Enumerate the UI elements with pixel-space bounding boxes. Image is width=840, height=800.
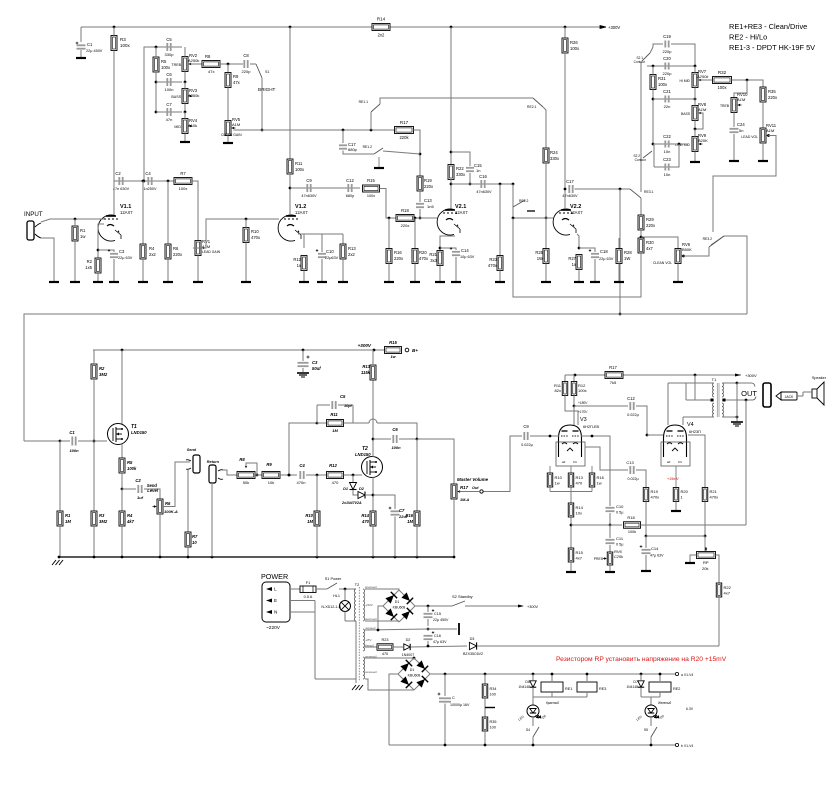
svg-text:CLEAN VOL: CLEAN VOL: [653, 261, 672, 265]
svg-text:5n: 5n: [739, 128, 743, 133]
svg-text:1n250V: 1n250V: [143, 187, 157, 191]
svg-text:Return: Return: [207, 460, 220, 464]
svg-text:100x: 100x: [161, 65, 171, 70]
svg-text:Out: Out: [472, 486, 479, 490]
svg-text:3x3: 3x3: [430, 258, 437, 263]
svg-text:47n630V: 47n630V: [301, 194, 317, 198]
svg-text:330x: 330x: [456, 172, 466, 177]
svg-text:10: 10: [192, 540, 197, 545]
svg-text:C16: C16: [479, 174, 487, 179]
svg-text:RE3.2: RE3.2: [703, 237, 713, 241]
svg-text:C1: C1: [87, 42, 93, 47]
svg-text:Красный: Красный: [546, 701, 559, 705]
svg-text:LND150: LND150: [131, 430, 147, 435]
svg-text:22μ 63V: 22μ 63V: [599, 257, 614, 261]
svg-text:1M-A: 1M-A: [460, 498, 470, 502]
svg-text:A1M: A1M: [232, 122, 240, 127]
svg-text:R17: R17: [400, 120, 409, 125]
svg-text:47n 630V: 47n 630V: [113, 187, 130, 191]
svg-text:1W: 1W: [537, 256, 543, 261]
svg-text:RE1-3 - DPDT HK-19F 5V: RE1-3 - DPDT HK-19F 5V: [729, 43, 815, 52]
svg-text:C4: C4: [145, 171, 151, 176]
svg-text:2x2: 2x2: [348, 252, 355, 257]
svg-text:R1: R1: [80, 228, 86, 233]
svg-text:C3: C3: [119, 249, 125, 254]
svg-text:0 5μ: 0 5μ: [616, 543, 623, 547]
svg-text:A1M: A1M: [697, 107, 707, 112]
svg-text:B20K: B20K: [698, 138, 708, 143]
svg-text:MID: MID: [174, 125, 181, 129]
svg-text:TREB: TREB: [720, 104, 730, 108]
svg-text:R16: R16: [597, 475, 605, 480]
svg-text:C12: C12: [627, 396, 635, 401]
svg-text:470x: 470x: [710, 495, 719, 500]
svg-text:100x: 100x: [179, 186, 188, 191]
svg-text:LND150: LND150: [355, 452, 371, 457]
svg-text:47x: 47x: [233, 80, 241, 85]
svg-text:100x: 100x: [367, 194, 375, 198]
svg-text:POWER: POWER: [261, 572, 288, 581]
svg-text:R10: R10: [305, 513, 313, 518]
svg-text:1M: 1M: [307, 519, 313, 524]
svg-text:R6: R6: [173, 246, 179, 251]
svg-text:+300V: +300V: [745, 373, 757, 378]
svg-text:R13: R13: [362, 364, 370, 369]
svg-text:~220V: ~220V: [266, 625, 281, 631]
svg-text:1M: 1M: [65, 519, 71, 524]
svg-text:1N4148: 1N4148: [626, 685, 638, 689]
svg-text:220x: 220x: [646, 223, 656, 228]
svg-text:1N4148: 1N4148: [518, 685, 530, 689]
svg-text:-28V: -28V: [365, 638, 372, 642]
svg-text:R18: R18: [401, 208, 409, 213]
svg-text:R11: R11: [330, 412, 338, 417]
svg-text:470x: 470x: [651, 495, 660, 500]
svg-text:R17: R17: [609, 365, 617, 370]
svg-text:KBU608: KBU608: [393, 606, 406, 610]
svg-text:0 b: 0 b: [678, 460, 683, 464]
svg-text:+300V: +300V: [358, 343, 372, 348]
svg-text:Speaker: Speaker: [812, 376, 827, 380]
svg-text:T1: T1: [712, 377, 717, 382]
svg-text:10n: 10n: [664, 172, 671, 177]
svg-text:Contour: Contour: [634, 60, 646, 64]
svg-text:47n630V: 47n630V: [476, 190, 492, 194]
svg-text:6Н2П-ЕВ: 6Н2П-ЕВ: [583, 425, 599, 429]
svg-text:R4: R4: [127, 513, 133, 518]
svg-text:C25k: C25k: [614, 555, 624, 559]
svg-text:R28: R28: [624, 250, 632, 255]
svg-text:R16: R16: [394, 250, 402, 255]
svg-text:C9: C9: [306, 178, 312, 183]
svg-text:100: 100: [490, 693, 496, 697]
svg-text:C7: C7: [166, 102, 172, 107]
svg-text:22n: 22n: [664, 104, 671, 109]
svg-text:C7: C7: [399, 508, 405, 513]
svg-text:R32: R32: [718, 70, 727, 75]
svg-text:CLEAN GAIN: CLEAN GAIN: [221, 133, 242, 137]
svg-text:R3: R3: [99, 513, 105, 518]
svg-text:R15: R15: [389, 340, 397, 345]
svg-text:A250k: A250k: [188, 93, 199, 98]
svg-text:R23: R23: [382, 638, 389, 642]
svg-text:330x: 330x: [550, 156, 560, 161]
svg-text:47n630V: 47n630V: [562, 194, 578, 198]
svg-text:R29: R29: [646, 217, 654, 222]
svg-text:BASS: BASS: [171, 95, 181, 99]
svg-text:C2: C2: [135, 478, 141, 483]
svg-text:R2: R2: [99, 366, 105, 371]
svg-text:1uf: 1uf: [137, 495, 144, 500]
svg-text:100: 100: [490, 726, 496, 730]
svg-text:4x7: 4x7: [576, 556, 583, 561]
svg-text:220x: 220x: [173, 252, 183, 257]
svg-text:B+: B+: [412, 348, 418, 353]
svg-text:50uf: 50uf: [312, 366, 321, 371]
svg-text:470: 470: [332, 480, 339, 485]
svg-text:C1: C1: [69, 430, 75, 435]
svg-text:C4: C4: [299, 463, 305, 468]
svg-text:R10: R10: [555, 475, 563, 480]
svg-text:BZX35C6V2: BZX35C6V2: [463, 652, 483, 656]
svg-text:115k: 115k: [361, 370, 371, 375]
svg-text:C5: C5: [166, 37, 172, 42]
svg-text:2x2: 2x2: [149, 252, 156, 257]
svg-text:D1: D1: [395, 600, 400, 604]
svg-text:Send: Send: [187, 448, 197, 452]
svg-text:RV6: RV6: [614, 549, 622, 554]
svg-text:4x7: 4x7: [724, 591, 731, 596]
svg-text:82x: 82x: [555, 388, 561, 393]
svg-text:220x: 220x: [401, 223, 410, 228]
svg-text:22μ 450V: 22μ 450V: [86, 49, 103, 53]
svg-text:100K-A: 100K-A: [164, 509, 178, 514]
svg-text:R15: R15: [367, 178, 375, 183]
svg-text:C2: C2: [115, 171, 121, 176]
svg-text:D2: D2: [406, 638, 411, 642]
svg-text:680p: 680p: [348, 147, 358, 152]
svg-text:R4: R4: [149, 246, 155, 251]
svg-text:S4: S4: [526, 728, 530, 732]
svg-text:R22: R22: [724, 585, 732, 590]
svg-text:R21: R21: [710, 489, 718, 494]
svg-text:R12: R12: [329, 463, 337, 468]
svg-text:KBU608: KBU608: [408, 674, 421, 678]
svg-text:100n: 100n: [69, 448, 79, 453]
svg-text:10pf: 10pf: [344, 404, 353, 408]
svg-text:N: N: [274, 610, 277, 615]
svg-text:E: E: [274, 598, 277, 603]
svg-text:4k7: 4k7: [126, 519, 135, 524]
svg-text:12AX7: 12AX7: [120, 210, 133, 215]
svg-text:C15: C15: [434, 612, 441, 616]
svg-text:R6: R6: [165, 501, 171, 506]
svg-text:LEAD GAIN: LEAD GAIN: [202, 250, 221, 254]
svg-text:12AX7: 12AX7: [570, 210, 583, 215]
svg-text:C21: C21: [663, 89, 671, 94]
svg-text:4x7: 4x7: [646, 246, 653, 251]
svg-text:C23: C23: [663, 157, 671, 162]
svg-text:зеленый: зеленый: [364, 670, 377, 674]
svg-text:47x: 47x: [208, 69, 214, 74]
svg-text:6.3V: 6.3V: [686, 707, 694, 711]
svg-text:RE3: RE3: [599, 687, 606, 691]
svg-text:S1 Power: S1 Power: [325, 577, 342, 581]
svg-text:330p: 330p: [165, 52, 175, 57]
svg-text:R15: R15: [576, 550, 584, 555]
svg-text:Желтый: Желтый: [657, 701, 671, 705]
svg-text:R1: R1: [65, 513, 71, 518]
svg-text:12AX7: 12AX7: [455, 210, 468, 215]
svg-text:7k5: 7k5: [610, 380, 617, 385]
svg-text:R9: R9: [266, 462, 272, 467]
svg-text:RE2: RE2: [673, 687, 680, 691]
svg-text:220p: 220p: [242, 69, 252, 74]
svg-text:220p: 220p: [663, 49, 673, 54]
svg-text:C6: C6: [392, 427, 398, 432]
svg-text:100k: 100k: [628, 530, 636, 534]
svg-text:RE2 - Hi/Lo: RE2 - Hi/Lo: [729, 33, 767, 42]
svg-text:F1: F1: [306, 581, 310, 585]
svg-text:D6: D6: [525, 680, 530, 684]
svg-text:C16: C16: [434, 634, 441, 638]
svg-text:0.022μ: 0.022μ: [627, 477, 638, 481]
svg-text:R2: R2: [87, 259, 93, 264]
svg-text:R5: R5: [127, 460, 133, 465]
svg-text:10n: 10n: [664, 149, 671, 154]
svg-text:1M: 1M: [332, 428, 338, 433]
svg-text:INPUT: INPUT: [24, 211, 43, 218]
svg-text:R20: R20: [681, 489, 689, 494]
svg-text:B50K: B50K: [682, 247, 692, 252]
svg-text:100x: 100x: [578, 388, 587, 393]
svg-text:R17: R17: [460, 485, 469, 490]
svg-text:A1M: A1M: [736, 97, 746, 102]
svg-text:PRES: PRES: [594, 557, 604, 561]
svg-text:C20: C20: [663, 56, 671, 61]
svg-text:470: 470: [382, 652, 388, 656]
svg-text:R9: R9: [233, 74, 239, 79]
svg-text:RE1.1: RE1.1: [359, 100, 369, 104]
svg-text:R14: R14: [377, 17, 386, 22]
svg-text:b V1-V4: b V1-V4: [681, 744, 693, 748]
svg-text:3M2: 3M2: [99, 519, 108, 524]
svg-text:R13: R13: [348, 246, 356, 251]
svg-text:100n: 100n: [391, 445, 401, 450]
svg-text:470: 470: [361, 519, 370, 524]
svg-text:1n5: 1n5: [427, 204, 434, 209]
svg-text:S1: S1: [265, 70, 269, 74]
svg-text:220k: 220k: [399, 135, 409, 140]
svg-text:+300V: +300V: [527, 605, 539, 609]
svg-text:D7: D7: [633, 680, 638, 684]
svg-text:C: C: [452, 696, 455, 700]
svg-text:R8: R8: [239, 457, 245, 462]
svg-text:C17: C17: [566, 179, 574, 184]
svg-text:C8: C8: [243, 53, 249, 58]
svg-text:680p: 680p: [346, 194, 354, 198]
svg-text:RE2.2: RE2.2: [519, 199, 529, 203]
svg-text:C3: C3: [312, 360, 318, 365]
svg-text:R11: R11: [295, 161, 303, 166]
svg-text:470x: 470x: [488, 263, 498, 268]
svg-text:RE1: RE1: [565, 687, 572, 691]
svg-text:R22: R22: [456, 166, 464, 171]
svg-text:V3: V3: [580, 417, 587, 423]
svg-text:C13: C13: [424, 198, 432, 203]
svg-text:470: 470: [576, 481, 583, 486]
svg-text:47n: 47n: [166, 117, 173, 122]
svg-text:3M2: 3M2: [99, 372, 108, 377]
svg-text:10000μ 16V: 10000μ 16V: [450, 703, 470, 707]
svg-text:R20: R20: [419, 250, 427, 255]
svg-text:Contour: Contour: [635, 158, 647, 162]
svg-text:+300V: +300V: [608, 25, 620, 30]
svg-text:+170V: +170V: [578, 410, 588, 414]
svg-text:100x: 100x: [570, 46, 580, 51]
svg-text:22μ63V: 22μ63V: [325, 256, 339, 260]
svg-text:100x: 100x: [120, 43, 131, 48]
svg-text:R13: R13: [576, 475, 584, 480]
svg-text:R16: R16: [405, 513, 413, 518]
svg-text:C12: C12: [346, 178, 354, 183]
svg-text:47μ 63V: 47μ 63V: [433, 640, 447, 644]
svg-text:R12: R12: [293, 257, 301, 262]
svg-text:a V1-V4: a V1-V4: [681, 673, 693, 677]
svg-text:2x2: 2x2: [378, 33, 385, 38]
svg-text:N-XD12-1-B: N-XD12-1-B: [321, 605, 341, 609]
svg-text:RE1+RE3 - Clean/Drive: RE1+RE3 - Clean/Drive: [729, 22, 807, 31]
svg-text:Master Volume: Master Volume: [457, 477, 489, 482]
svg-text:R18: R18: [627, 515, 635, 520]
svg-text:желтый: желтый: [364, 617, 377, 621]
svg-text:100n: 100n: [165, 87, 174, 92]
svg-text:HI MID: HI MID: [679, 79, 690, 83]
svg-text:R19: R19: [424, 178, 432, 183]
svg-text:TREB: TREB: [171, 63, 181, 67]
svg-text:a0: a0: [667, 460, 671, 464]
svg-text:a0: a0: [562, 460, 566, 464]
svg-text:R31: R31: [658, 76, 666, 81]
svg-text:C13: C13: [626, 460, 634, 465]
svg-text:220x: 220x: [394, 256, 404, 261]
svg-text:RE1.2: RE1.2: [363, 145, 373, 149]
svg-text:C14: C14: [651, 546, 659, 551]
svg-text:12AX7: 12AX7: [295, 210, 308, 215]
svg-text:A250k: A250k: [696, 74, 709, 79]
svg-text:1w: 1w: [555, 481, 560, 486]
svg-text:C9: C9: [523, 424, 529, 429]
svg-text:50k: 50k: [243, 480, 249, 485]
svg-text:20k: 20k: [702, 566, 708, 571]
svg-text:R30: R30: [646, 240, 654, 245]
svg-text:L: L: [274, 587, 277, 592]
svg-text:A250k: A250k: [188, 58, 199, 63]
svg-text:OUT: OUT: [741, 389, 757, 398]
svg-text:100x: 100x: [295, 167, 305, 172]
svg-text:R3: R3: [120, 37, 126, 42]
svg-text:100x: 100x: [717, 85, 727, 90]
svg-text:R34: R34: [490, 687, 497, 691]
svg-text:R23: R23: [489, 257, 497, 262]
svg-text:1x5: 1x5: [85, 265, 92, 270]
svg-text:R24: R24: [550, 150, 558, 155]
svg-text:R35: R35: [490, 720, 497, 724]
svg-text:T2: T2: [355, 583, 359, 587]
svg-text:1M: 1M: [407, 519, 413, 524]
svg-text:R7: R7: [192, 534, 198, 539]
svg-text:220x: 220x: [424, 184, 434, 189]
svg-text:470n: 470n: [297, 480, 306, 485]
svg-text:0.022μ: 0.022μ: [627, 413, 639, 417]
svg-text:470x: 470x: [419, 256, 429, 261]
svg-text:D1: D1: [343, 487, 348, 491]
svg-text:C22: C22: [663, 134, 671, 139]
svg-text:BRIGHT: BRIGHT: [258, 87, 276, 92]
svg-text:C10: C10: [326, 249, 334, 254]
svg-text:R10: R10: [251, 229, 259, 234]
svg-text:S2 Standby: S2 Standby: [452, 594, 473, 599]
svg-text:R21: R21: [429, 252, 437, 257]
svg-text:+180V: +180V: [578, 401, 588, 405]
svg-text:BASS: BASS: [681, 112, 691, 116]
svg-text:D3: D3: [470, 637, 475, 641]
svg-text:C24: C24: [737, 122, 745, 127]
svg-text:100x: 100x: [658, 82, 668, 87]
svg-text:красный: красный: [365, 585, 377, 589]
svg-text:A1M: A1M: [765, 128, 775, 133]
svg-text:0.022μ: 0.022μ: [521, 443, 533, 447]
svg-text:HL1: HL1: [333, 594, 340, 598]
svg-text:R26: R26: [570, 40, 578, 45]
svg-text:R8: R8: [205, 54, 211, 59]
svg-text:1N4007: 1N4007: [402, 653, 415, 657]
svg-text:Level: Level: [147, 488, 159, 493]
svg-text:+15mV: +15mV: [667, 477, 679, 481]
svg-text:S5: S5: [644, 728, 648, 732]
svg-text:C18: C18: [600, 249, 608, 254]
svg-text:220x: 220x: [768, 95, 778, 100]
svg-text:V4: V4: [687, 422, 694, 428]
svg-text:0 5μ: 0 5μ: [616, 511, 623, 515]
svg-text:2x1N47V2A: 2x1N47V2A: [341, 501, 362, 505]
svg-text:22μ 63V: 22μ 63V: [118, 256, 133, 260]
svg-text:R25: R25: [535, 250, 543, 255]
svg-text:0 b: 0 b: [573, 460, 578, 464]
svg-text:C10: C10: [616, 504, 624, 509]
svg-text:R7: R7: [180, 171, 186, 176]
svg-text:1n: 1n: [476, 168, 480, 173]
svg-text:100k: 100k: [127, 466, 137, 471]
svg-text:1W: 1W: [624, 256, 630, 261]
svg-text:LEAD VOL: LEAD VOL: [741, 135, 758, 139]
svg-text:RE2.1: RE2.1: [527, 105, 537, 109]
svg-text:R14: R14: [361, 513, 369, 518]
svg-text:JACK: JACK: [785, 395, 794, 399]
svg-text:470x: 470x: [251, 235, 261, 240]
svg-text:C6: C6: [166, 72, 172, 77]
svg-text:R14: R14: [576, 505, 584, 510]
svg-text:C19: C19: [663, 34, 671, 39]
svg-text:6Н23П: 6Н23П: [689, 430, 701, 434]
svg-text:10x: 10x: [576, 511, 582, 516]
svg-text:47μ 63V: 47μ 63V: [650, 554, 664, 558]
svg-text:22μ 450V: 22μ 450V: [433, 618, 449, 622]
svg-text:RP: RP: [703, 560, 709, 565]
svg-text:10k: 10k: [268, 480, 274, 485]
svg-text:R27: R27: [568, 256, 576, 261]
svg-text:D1: D1: [410, 668, 415, 672]
